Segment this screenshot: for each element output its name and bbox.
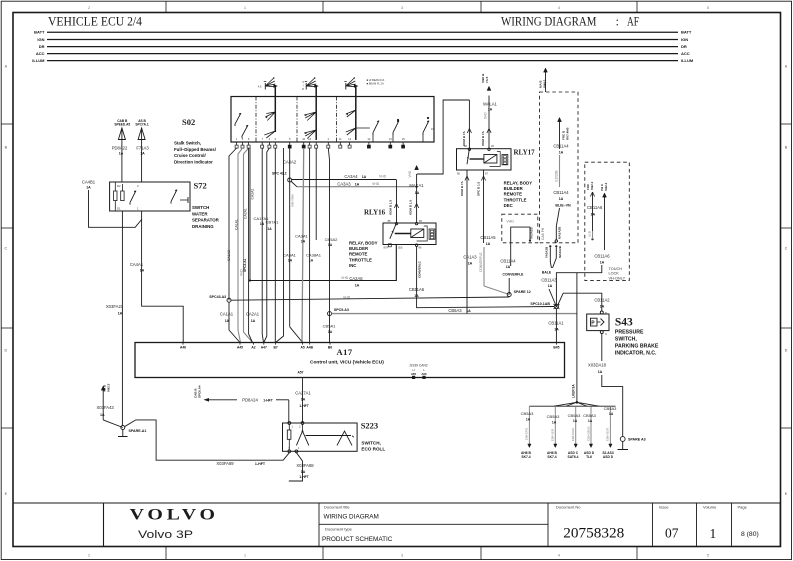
svg-text:B7: B7 (273, 346, 277, 350)
svg-text:1A: 1A (600, 261, 605, 265)
relay RLY16 box (383, 223, 436, 245)
svg-text:CB11A6: CB11A6 (587, 205, 603, 210)
svg-text:KOM B 1.5: KOM B 1.5 (389, 200, 393, 215)
wire node down CB11A1 to A17 pin B45 (555, 309, 557, 343)
switch S72 box (110, 182, 190, 211)
svg-text:CA3A4: CA3A4 (344, 174, 358, 179)
dashed connector box CAB PH (540, 92, 579, 243)
svg-text:1A: 1A (559, 151, 564, 155)
svg-text:CAB PH: CAB PH (541, 227, 545, 240)
S02 interior switches right (373, 121, 379, 133)
svg-text:(30): (30) (398, 246, 403, 250)
svg-text:THROTTLE: THROTTLE (504, 197, 527, 202)
svg-text:CONVERFLE: CONVERFLE (479, 253, 483, 272)
svg-text:WATER: WATER (192, 211, 208, 216)
svg-text:C: C (785, 247, 788, 251)
wire column 284 to pin B7 (276, 148, 284, 343)
RLY17 pin block (502, 155, 508, 165)
svg-text:1A: 1A (140, 152, 145, 156)
wire RLY17 pin86 top column (468, 100, 470, 149)
svg-text:A45: A45 (237, 346, 243, 350)
svg-text:Cruise Control/: Cruise Control/ (174, 153, 206, 158)
svg-text:TL6: TL6 (586, 455, 592, 459)
svg-text:BLIE–VN: BLIE–VN (555, 204, 571, 208)
S02 interior fans col3 (346, 110, 356, 117)
S02 interior switch arms col1 (265, 112, 275, 121)
svg-text:RV7.4M5: RV7.4M5 (566, 127, 570, 140)
off-page arrow inside CAB PH box (558, 118, 562, 122)
bus line BATT (47, 31, 678, 33)
svg-text:11: 11 (339, 137, 342, 141)
svg-text:SPC6.A4: SPC6.A4 (198, 385, 202, 398)
svg-text:E08-VER: E08-VER (551, 429, 555, 441)
bus line DR (47, 46, 678, 48)
svg-text:PD8A24: PD8A24 (242, 397, 258, 402)
svg-text:SPC B 1.5: SPC B 1.5 (477, 181, 481, 196)
svg-text:RELAY, BODY: RELAY, BODY (504, 181, 533, 186)
svg-text:1A: 1A (86, 186, 91, 190)
svg-text:SPC 43.2: SPC 43.2 (272, 172, 287, 176)
svg-text:CA3A1: CA3A1 (295, 234, 308, 239)
svg-text:SPC10.1AB: SPC10.1AB (530, 302, 550, 306)
svg-text:■ BEAM FL 2A: ■ BEAM FL 2A (367, 81, 384, 85)
svg-text:MAKA1: MAKA1 (409, 183, 424, 188)
svg-text:14: 14 (348, 137, 351, 141)
wire CB11A6 to node SPC10.1AB (556, 265, 601, 307)
svg-text:F71A3: F71A3 (136, 146, 149, 151)
svg-text:1A: 1A (301, 240, 306, 244)
svg-text:PARKING BRAKE: PARKING BRAKE (615, 344, 659, 350)
wire node to CB11A2 and S43 (558, 293, 602, 310)
svg-text:13: 13 (389, 137, 392, 141)
svg-text:A66: A66 (421, 372, 427, 376)
svg-text:1A: 1A (609, 412, 614, 416)
svg-text:CA1A1: CA1A1 (220, 312, 234, 317)
svg-text:DRAINING: DRAINING (192, 224, 214, 229)
node SPC10.1AB (554, 304, 558, 308)
svg-text:RLY17: RLY17 (514, 149, 536, 157)
wire column 316 short (315, 148, 317, 240)
svg-text:VH2.2: VH2.2 (604, 182, 608, 191)
svg-text:R: R (302, 87, 304, 91)
svg-text:Document type: Document type (325, 526, 353, 531)
svg-text:12: 12 (367, 137, 370, 141)
svg-text:X03FA88: X03FA88 (296, 463, 314, 468)
svg-text:VEHICLE ECU 2/4: VEHICLE ECU 2/4 (48, 15, 143, 29)
bottom edge zone ticks (165, 547, 167, 560)
svg-text:U1523B: U1523B (555, 170, 559, 182)
svg-text:CONVERLC: CONVERLC (418, 260, 422, 278)
RLY16 pin block (429, 229, 435, 239)
S223 switch contact left (296, 431, 308, 445)
svg-text:CA2A1: CA2A1 (246, 312, 260, 317)
svg-text:87A: 87A (384, 246, 389, 250)
wire node diag to CA3A3 (291, 182, 297, 187)
svg-text:8 (80): 8 (80) (741, 531, 759, 538)
svg-text:SWITCH,: SWITCH, (361, 440, 380, 445)
svg-text:07: 07 (665, 526, 679, 541)
S02 interior fans col2 (304, 112, 316, 121)
off-page arrow PD8A22 (118, 128, 125, 140)
svg-text:1A: 1A (328, 330, 333, 334)
svg-text:SWITCH,: SWITCH, (615, 337, 637, 343)
svg-text:5: 5 (707, 554, 709, 558)
svg-text:1A: 1A (328, 243, 333, 247)
svg-text:1A: 1A (598, 370, 603, 374)
svg-text:CA3A2: CA3A2 (283, 160, 297, 165)
off-page arrow F71A3 (138, 128, 145, 140)
svg-text:VA3A2B: VA3A2B (530, 227, 534, 239)
svg-text:A17: A17 (337, 347, 353, 357)
right edge zone ticks (781, 123, 792, 125)
svg-text:VHD: VHD (484, 112, 488, 119)
switch CB11A3 to node (549, 289, 556, 307)
svg-text:BUILDER: BUILDER (504, 186, 524, 191)
svg-text:BALE: BALE (542, 271, 552, 275)
svg-text:1A: 1A (600, 305, 605, 309)
spare node SPARE A3 (620, 437, 625, 442)
switch contact in S72 (right) (171, 190, 177, 202)
svg-text:CB11A4: CB11A4 (553, 190, 569, 195)
svg-text:1-HFT: 1-HFT (263, 398, 274, 402)
svg-text:CB5A1: CB5A1 (323, 324, 336, 329)
S02 interior stem 3 (355, 97, 357, 141)
svg-text:WIRING DIAGRAM: WIRING DIAGRAM (501, 15, 597, 29)
wire column 275 to pin B7 (274, 148, 276, 343)
bus line IGN (47, 39, 678, 41)
svg-text:15: 15 (402, 137, 405, 141)
svg-text:Volume: Volume (703, 505, 717, 510)
title block divider volvo/doc (318, 503, 320, 547)
svg-text:1-HFT: 1-HFT (255, 462, 266, 466)
svg-text:CA3A3: CA3A3 (337, 181, 351, 186)
svg-text:SK7.4: SK7.4 (521, 455, 530, 459)
svg-text:Document No: Document No (556, 505, 581, 510)
S43 P symbol (591, 318, 598, 326)
wire A17 pin A57 to S223 / CA27A1 (302, 380, 304, 423)
svg-text:1A: 1A (468, 262, 473, 266)
svg-text:2: 2 (88, 554, 90, 558)
svg-text:1A: 1A (355, 284, 360, 288)
RLY17 coil (484, 155, 497, 164)
svg-text:DEC: DEC (504, 203, 513, 208)
svg-text:CA1A1: CA1A1 (235, 219, 239, 230)
resistor R in S72 (left) (114, 191, 117, 201)
svg-text:1A: 1A (526, 417, 531, 421)
svg-text:3: 3 (401, 554, 403, 558)
svg-text:E08-C0L0: E08-C0L0 (571, 428, 575, 441)
svg-text:SPARE A3: SPARE A3 (628, 438, 646, 442)
svg-text:X03FA89: X03FA89 (216, 461, 234, 466)
svg-text:4,5: 4,5 (258, 84, 262, 88)
svg-text:VHD: VHD (341, 276, 349, 280)
svg-text:1A: 1A (288, 259, 293, 263)
svg-text:SPARE-A1: SPARE-A1 (129, 429, 147, 433)
svg-text:1A: 1A (267, 227, 272, 231)
svg-text:SPC3.A1: SPC3.A1 (243, 258, 247, 272)
wire column gray 302 to pin A5 (302, 148, 304, 340)
svg-text:CB5A3: CB5A3 (583, 413, 596, 418)
svg-text:BUILDER: BUILDER (349, 246, 369, 251)
svg-text:CB11A6: CB11A6 (594, 254, 610, 259)
svg-text:1A: 1A (140, 269, 145, 273)
wire SPC43.A3 node and horizontal (227, 298, 231, 302)
svg-text:ACC: ACC (681, 51, 690, 56)
svg-text:CB5A3: CB5A3 (521, 411, 534, 416)
svg-text:VH2.5: VH2.5 (107, 383, 111, 392)
svg-text:1A: 1A (100, 413, 105, 417)
svg-text:VH-ONLY: VH-ONLY (609, 276, 626, 280)
svg-text:C: C (4, 247, 7, 251)
svg-text:D: D (785, 349, 788, 353)
S02 interior stem 1 (274, 97, 276, 133)
CB5A3 branch 3 (575, 406, 577, 444)
svg-text:■ HI BEAM F/A: ■ HI BEAM F/A (367, 78, 385, 82)
svg-text:SPARE 12: SPARE 12 (514, 290, 531, 294)
wire column CA1A2 (229, 148, 237, 300)
svg-text:CA1A3: CA1A3 (463, 255, 477, 260)
wire PD8A24 with left arrow (204, 398, 210, 402)
wire RLY16 pin87 down CB11A6 (417, 246, 555, 307)
svg-text:1A: 1A (588, 419, 593, 423)
svg-text:IGN: IGN (37, 37, 44, 42)
svg-text:INDICATOR, N.C.: INDICATOR, N.C. (615, 351, 657, 357)
wire CA2A6 horizontal to RLY16 (250, 245, 396, 281)
svg-text:1A: 1A (414, 294, 419, 298)
wire column gray 243 to pin A2 (244, 148, 253, 343)
svg-text:D2: D2 (117, 184, 121, 188)
svg-text:1: 1 (244, 6, 246, 10)
svg-text:4: 4 (558, 554, 560, 558)
svg-text:INC: INC (349, 263, 356, 268)
svg-text:CA4B1: CA4B1 (82, 180, 96, 185)
svg-text:U1B: U1B (588, 231, 592, 237)
svg-text:ACC: ACC (36, 51, 45, 56)
RLY17 switch contact (467, 149, 469, 165)
wire column 267 to pin A47 (264, 148, 270, 343)
svg-text:KOM B 7A: KOM B 7A (462, 130, 466, 146)
svg-text:VHD: VHD (343, 296, 351, 300)
wire S223 pin1 down X03FA88 (289, 453, 303, 481)
RLY16 bottom pins (388, 244, 391, 247)
S223 contact bar (306, 435, 352, 437)
wire RLY16 pin86/MAKA1 up (416, 187, 418, 223)
switch contact in S72 (left) (130, 191, 136, 203)
svg-text:CB5A3: CB5A3 (448, 308, 462, 313)
svg-text:VA3A2B: VA3A2B (545, 247, 549, 258)
dashed connector box VHD (502, 214, 538, 243)
svg-text:A5: A5 (300, 346, 304, 350)
svg-text:CB11A4: CB11A4 (500, 259, 516, 264)
svg-text:SWITCH: SWITCH (192, 205, 209, 210)
svg-text:D: D (4, 349, 7, 353)
S02 interior stem 2 (315, 97, 317, 141)
svg-text:S43: S43 (615, 317, 633, 329)
svg-text:REMOTE: REMOTE (504, 192, 523, 197)
wire L from RLY16 column to RLY17 (417, 100, 470, 174)
svg-text:1A: 1A (559, 197, 564, 201)
S02 pin pads (236, 142, 238, 146)
svg-text:10: 10 (302, 137, 305, 141)
wire column 248 to pin A2 (248, 149, 250, 151)
svg-text:CB11A4: CB11A4 (553, 144, 569, 149)
svg-text:B45: B45 (553, 346, 559, 350)
resistor R in S72 (right) (121, 191, 124, 201)
svg-text:1A: 1A (118, 312, 123, 316)
svg-text:1A: 1A (225, 319, 230, 323)
top edge zone ticks (165, 1, 167, 12)
wire gray CONVERFLE to SPARE12 node (483, 247, 485, 286)
switch S02 box (231, 97, 434, 143)
resistor in S223 (287, 430, 291, 439)
title block divider no/issue (652, 503, 654, 547)
svg-text:IGN: IGN (681, 37, 688, 42)
wire CB5A3 distribution bus (529, 405, 615, 407)
svg-text:Document title: Document title (324, 505, 350, 510)
svg-text:E08-VE87: E08-VE87 (606, 427, 610, 441)
wire S72 pin E1 down / X03FA21 (121, 211, 123, 426)
wire CB11A2 to S43 pin D (600, 311, 603, 314)
svg-text:1A: 1A (260, 222, 265, 226)
svg-text:KOM B 1.5: KOM B 1.5 (409, 200, 413, 215)
svg-text:1A: 1A (552, 420, 557, 424)
wire CA3A4 horizontal (292, 179, 397, 181)
svg-text:CB11A2: CB11A2 (594, 298, 610, 303)
relay RLY17 box (457, 149, 512, 170)
svg-text:RLY16: RLY16 (364, 209, 386, 217)
svg-text::: : (616, 15, 620, 29)
svg-text:S223: S223 (361, 421, 378, 431)
svg-text:VOLVO: VOLVO (130, 507, 219, 524)
wire MALA1 off-page arrow (488, 96, 490, 149)
svg-text:1A: 1A (362, 175, 367, 179)
svg-text:A2: A2 (251, 346, 255, 350)
svg-text:1A: 1A (355, 182, 360, 186)
svg-text:D1: D1 (117, 207, 121, 211)
svg-text:16: 16 (308, 137, 311, 141)
svg-text:CA38A1: CA38A1 (306, 253, 322, 258)
wire RLY16 pin85 up + VHD corner (396, 180, 398, 223)
svg-text:CA2A1: CA2A1 (244, 208, 248, 219)
svg-text:1A: 1A (554, 328, 559, 332)
wires CAB PH pins to CB11A3 (550, 248, 551, 269)
wire junction to X03FA89 run (125, 420, 290, 460)
S02 stalk fan 2 (306, 78, 317, 87)
svg-text:CB11A3: CB11A3 (541, 278, 557, 283)
svg-text:MALA1: MALA1 (483, 101, 497, 106)
svg-text:THROTTLE: THROTTLE (349, 257, 372, 262)
svg-text:ILLUM: ILLUM (681, 58, 694, 63)
svg-text:1: 1 (710, 526, 717, 541)
svg-text:CA4A1: CA4A1 (130, 262, 144, 267)
wire gray inside CAB PH (559, 155, 561, 187)
RLY16 switch contact (390, 223, 397, 239)
CB5A3 branch 4 (590, 406, 592, 444)
svg-text:CA2A2: CA2A2 (251, 189, 255, 200)
svg-text:CB11A6: CB11A6 (409, 287, 425, 292)
svg-text:Stalk Switch,: Stalk Switch, (174, 141, 201, 146)
svg-text:SPEED.A5: SPEED.A5 (114, 123, 130, 127)
S02 stalk fan 3 (346, 78, 357, 87)
svg-text:1A: 1A (488, 108, 493, 112)
wire RLY17 pin87 down CB11A5 (483, 170, 485, 243)
A17 top pin labels (182, 343, 184, 345)
dashed connector box TOUCH LOCK (585, 162, 630, 280)
svg-text:SPC43.A3: SPC43.A3 (209, 295, 226, 299)
svg-text:CB7A1: CB7A1 (266, 220, 279, 225)
svg-text:BATT: BATT (34, 30, 45, 35)
svg-text:A57: A57 (297, 371, 303, 375)
wire CA4B1 loop (89, 190, 143, 227)
junction LKER 9A (576, 401, 579, 404)
S02 dash-dot dividers (255, 97, 257, 142)
svg-text:IHB-VRM: IHB-VRM (291, 194, 295, 207)
svg-text:SAT6.4: SAT6.4 (568, 455, 579, 459)
svg-text:PD8A22: PD8A22 (112, 146, 128, 151)
svg-text:VHD: VHD (372, 182, 380, 186)
wire S72 pin 1 down / CA4A1 (142, 211, 184, 343)
svg-text:CA2A6: CA2A6 (349, 276, 363, 281)
svg-text:MA3A2B: MA3A2B (558, 246, 562, 258)
wire X03DA18 to SPARE A3 (602, 375, 623, 437)
svg-text:RELAY, BODY: RELAY, BODY (349, 241, 378, 246)
svg-text:SEPARATOR: SEPARATOR (192, 218, 220, 223)
svg-text:E08-EPG: E08-EPG (525, 427, 529, 440)
svg-text:1: 1 (244, 554, 246, 558)
svg-text:SPC9.A3: SPC9.A3 (334, 308, 349, 312)
svg-text:DR: DR (681, 44, 687, 49)
spare node SPARE 12 (507, 293, 511, 297)
svg-text:1A: 1A (415, 191, 420, 195)
bus line ILLUM (47, 60, 678, 62)
svg-text:PRESSURE: PRESSURE (615, 330, 644, 336)
svg-text:WIRING DIAGRAM: WIRING DIAGRAM (324, 513, 379, 520)
title block mid divider (319, 523, 548, 525)
CB5A3 branch 5 (609, 406, 611, 444)
svg-text:X03FA21: X03FA21 (106, 304, 124, 309)
svg-text:5: 5 (707, 6, 709, 10)
wire column 250 to CA2A6 node (249, 148, 251, 281)
svg-text:CB11A5: CB11A5 (480, 235, 496, 240)
bus line ACC (47, 53, 678, 55)
svg-text:7A.5: 7A.5 (485, 76, 489, 83)
svg-text:Page: Page (738, 505, 748, 510)
svg-text:KOM B 7A: KOM B 7A (481, 130, 485, 146)
wire CA3A3 horizontal (297, 186, 417, 188)
svg-text:1A: 1A (301, 470, 306, 474)
wire column 309.6 to pin A4B (309, 148, 311, 343)
svg-text:ILLUM: ILLUM (32, 58, 45, 63)
svg-text:VHD: VHD (379, 175, 387, 179)
off-page arrow above CAB PH box (544, 68, 548, 72)
svg-text:20758328: 20758328 (563, 526, 624, 542)
wire column 262 to pin A47 (262, 148, 263, 343)
svg-text:ASD D: ASD D (603, 455, 614, 459)
svg-text:Direction Indicator: Direction Indicator (174, 159, 213, 164)
svg-text:1A: 1A (301, 398, 306, 402)
svg-text:AF: AF (627, 15, 639, 29)
wire X03FA43 to junction (103, 420, 123, 428)
svg-text:CB5A2: CB5A2 (325, 237, 338, 242)
S43 pin C (600, 331, 603, 334)
wire CB5A3 column down from TOUCH LOCK wire (576, 273, 578, 403)
svg-text:1A: 1A (309, 259, 314, 263)
title block divider issue/volume (696, 503, 698, 547)
S223 switch contact right (337, 431, 352, 445)
svg-text:DR: DR (39, 44, 45, 49)
wire U inside VHD box (511, 227, 530, 243)
svg-text:B6: B6 (328, 346, 332, 350)
